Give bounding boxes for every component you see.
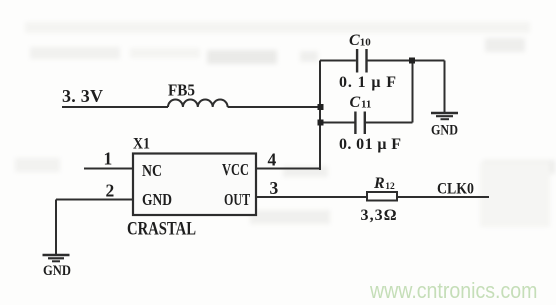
svg-text:C: C <box>350 94 361 111</box>
svg-text:3: 3 <box>270 178 279 198</box>
svg-text:GND: GND <box>431 121 458 137</box>
svg-text:3,3Ω: 3,3Ω <box>361 207 397 224</box>
svg-text:VCC: VCC <box>222 161 249 179</box>
svg-text:GND: GND <box>43 262 71 278</box>
svg-text:C: C <box>349 32 360 49</box>
svg-text:0. 1 μ F: 0. 1 μ F <box>339 74 396 91</box>
svg-text:CLK0: CLK0 <box>437 181 474 198</box>
svg-text:0. 01 μ F: 0. 01 μ F <box>339 136 401 153</box>
svg-text:X1: X1 <box>133 136 150 153</box>
svg-text:OUT: OUT <box>224 191 250 209</box>
svg-text:4: 4 <box>268 150 277 170</box>
svg-text:www.cntronics.com: www.cntronics.com <box>369 279 537 303</box>
svg-text:NC: NC <box>142 162 162 181</box>
svg-text:10: 10 <box>360 37 372 49</box>
svg-text:FB5: FB5 <box>168 82 195 100</box>
svg-text:GND: GND <box>142 191 172 210</box>
svg-text:11: 11 <box>361 99 371 111</box>
svg-text:R: R <box>373 175 385 192</box>
svg-text:3. 3V: 3. 3V <box>62 86 103 106</box>
svg-text:1: 1 <box>104 149 113 169</box>
svg-text:2: 2 <box>106 181 115 201</box>
svg-text:12: 12 <box>385 182 395 192</box>
svg-text:CRASTAL: CRASTAL <box>127 218 196 239</box>
